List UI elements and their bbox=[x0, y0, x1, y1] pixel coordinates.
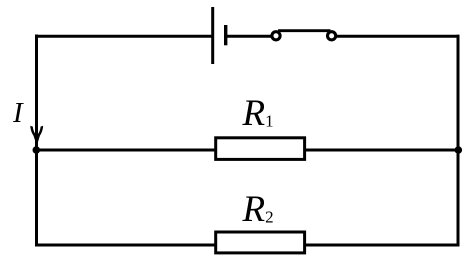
battery short plate (-) bbox=[224, 25, 227, 45]
label R1 bbox=[243, 92, 274, 135]
wire right vertical branch bbox=[457, 35, 460, 247]
current arrowhead bbox=[30, 126, 43, 146]
wire switch to top right corner bbox=[336, 35, 460, 38]
switch left contact circle bbox=[272, 32, 280, 40]
wire middle right segment bbox=[305, 149, 459, 152]
wire top left segment bbox=[35, 35, 212, 38]
wire battery to switch bbox=[226, 35, 273, 38]
resistor R2 box bbox=[216, 232, 305, 253]
wire left vertical branch bbox=[35, 35, 38, 247]
battery long plate (+) bbox=[211, 7, 214, 64]
node dot right junction bbox=[455, 146, 463, 154]
label I (current) bbox=[13, 97, 23, 130]
node dot left junction bbox=[33, 146, 41, 154]
switch blade bbox=[278, 29, 331, 32]
wire bottom right segment bbox=[305, 244, 460, 247]
wire bottom left segment bbox=[35, 244, 216, 247]
wire middle left segment bbox=[37, 149, 217, 152]
switch right contact circle bbox=[328, 32, 336, 40]
resistor R1 box bbox=[216, 138, 305, 160]
label R2 bbox=[243, 188, 274, 231]
